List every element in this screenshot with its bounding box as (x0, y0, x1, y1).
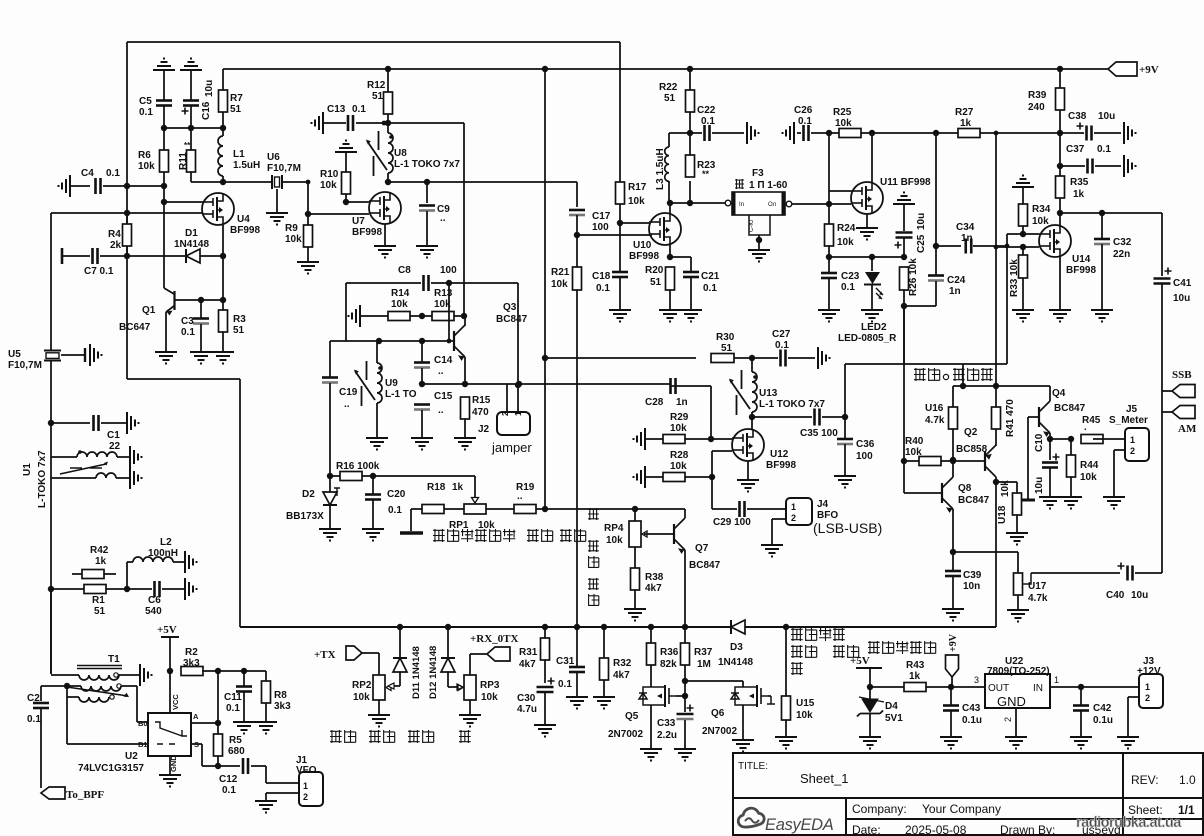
transformer T1 core (77, 665, 122, 667)
ground above C5 (153, 59, 175, 71)
svg-text:.: . (1084, 422, 1087, 433)
svg-text:10u: 10u (1098, 111, 1115, 122)
potentiometer RP2 (373, 675, 385, 700)
+9V flag vertical (946, 655, 959, 677)
svg-text:C31: C31 (556, 656, 575, 667)
node U8 bottom (385, 179, 391, 185)
inductor U13 with core arrow (751, 358, 753, 372)
capacitor C31 (576, 627, 578, 666)
svg-text:+12V: +12V (1137, 666, 1161, 677)
svg-text:RP1: RP1 (449, 520, 469, 531)
svg-text:U10: U10 (633, 240, 652, 251)
svg-text:D4: D4 (885, 701, 898, 712)
capacitor C27 (752, 357, 778, 359)
capacitor C17 (569, 209, 585, 212)
svg-text:C25: C25 (916, 234, 927, 253)
svg-text:22: 22 (109, 441, 121, 452)
wire R30 row (545, 357, 696, 359)
svg-text:+5V: +5V (157, 624, 177, 636)
resistor R21 (573, 267, 582, 290)
wire gate2 jog (711, 451, 713, 477)
svg-text:B0: B0 (138, 719, 148, 728)
wire RP4 row (545, 508, 685, 510)
inductor U9 with core arrow (376, 341, 378, 363)
svg-text:Sheet_1: Sheet_1 (800, 771, 848, 786)
resistor R12 (384, 92, 393, 114)
svg-text:BF998: BF998 (629, 251, 659, 262)
resistor R45 (1081, 435, 1103, 444)
svg-text:C34: C34 (956, 222, 975, 233)
F3 ground pins (749, 215, 770, 235)
wire U11 gate2 (829, 203, 851, 205)
ground Q1 (155, 352, 177, 364)
transformer U1 secondary (51, 477, 96, 479)
ground left of R28 (634, 466, 646, 488)
svg-text:2k: 2k (110, 240, 122, 251)
resistor R41 (992, 407, 1001, 429)
svg-text:1: 1 (1130, 435, 1135, 445)
svg-text:jamper: jamper (491, 440, 532, 455)
wire left vertical x127 (126, 42, 128, 379)
svg-text:1k: 1k (95, 556, 107, 567)
svg-text:+TX: +TX (314, 649, 336, 661)
ground R8 (255, 722, 277, 734)
IC U2 74LVC1G3157 (148, 713, 191, 756)
svg-text:Q4: Q4 (1052, 388, 1066, 399)
svg-text:RP4: RP4 (604, 523, 624, 534)
wire rail1 drop to R17 (619, 42, 621, 182)
resistor R25 (839, 129, 861, 138)
svg-text:C22: C22 (697, 105, 716, 116)
ground J5 (1103, 497, 1125, 509)
ground right of C38 (1124, 122, 1136, 144)
svg-text:10k: 10k (138, 161, 155, 172)
svg-text:C4: C4 (81, 168, 94, 179)
svg-text:C1: C1 (107, 430, 120, 441)
svg-text:1k: 1k (452, 482, 464, 493)
svg-text:10k: 10k (835, 118, 852, 129)
resistor R42 (82, 570, 104, 579)
wire U17 to C40 (1031, 572, 1120, 574)
capacitor C39 (952, 552, 954, 570)
svg-text:1k: 1k (960, 118, 972, 129)
transistor Q6 2N7002 (742, 681, 744, 687)
svg-text:L-1 TO: L-1 TO (385, 389, 417, 400)
svg-text:C38: C38 (1068, 111, 1087, 122)
svg-text:C2: C2 (27, 693, 40, 704)
svg-text:R1: R1 (92, 595, 105, 606)
svg-text:10k: 10k (670, 423, 687, 434)
svg-text:1n: 1n (949, 286, 961, 297)
wire y182 to U6 (191, 181, 272, 183)
svg-text:T1: T1 (108, 654, 120, 665)
capacitor C33 polarized (677, 713, 694, 716)
capacitor C5 (156, 99, 172, 102)
capacitor C40 polarized (1126, 566, 1129, 581)
ground left of R29 (634, 428, 646, 450)
svg-text:R16 100k: R16 100k (336, 461, 380, 472)
wire U4 source down (222, 225, 224, 256)
connector J5 S_Meter (1125, 428, 1149, 461)
resistor R7 (219, 90, 228, 112)
svg-text:0.1: 0.1 (27, 714, 41, 725)
diode D11 1N4148 (399, 627, 401, 658)
svg-text:0.1: 0.1 (222, 785, 236, 796)
ground U14 (1049, 310, 1071, 322)
wire R37 to C33 (684, 681, 686, 712)
wire to R45 (1050, 438, 1071, 440)
wire U14 gate2 (996, 246, 1039, 248)
wire U12 drain (751, 417, 753, 429)
svg-text:R38: R38 (645, 572, 664, 583)
svg-text:R26 10k: R26 10k (908, 258, 919, 296)
ground C11 (233, 722, 255, 734)
wire y379 boundary (127, 378, 240, 380)
svg-text:R2: R2 (185, 647, 198, 658)
transistor U10 BF998 (649, 213, 681, 245)
svg-text:10k: 10k (1080, 472, 1097, 483)
wire C16 to junction (190, 106, 192, 128)
svg-text:+9V: +9V (948, 633, 959, 652)
capacitor C2 (40, 686, 42, 701)
wire U5 right (61, 354, 85, 356)
capacitor C20 (372, 476, 374, 494)
wire C8 right (431, 282, 518, 284)
wire x51 down to U5 (50, 213, 52, 350)
svg-text:1k: 1k (909, 671, 921, 682)
svg-text:4k7: 4k7 (613, 670, 630, 681)
svg-text:1: 1 (1145, 682, 1150, 692)
svg-text:0.1: 0.1 (388, 505, 402, 516)
svg-text:10k: 10k (905, 447, 922, 458)
resistor R19 (514, 505, 536, 514)
svg-text:Q2: Q2 (964, 427, 978, 438)
svg-text:10u: 10u (204, 80, 215, 97)
svg-text:C17: C17 (592, 211, 611, 222)
svg-text:S_Meter: S_Meter (1109, 415, 1148, 426)
ground right of U1 primary (130, 446, 142, 468)
zener diode D4 5V1 (862, 699, 878, 712)
wire C2 to To_BPF (40, 708, 42, 788)
ground bar under R18 (400, 531, 423, 535)
wire to Q6 drain (685, 680, 743, 682)
svg-text:LED-0805_R: LED-0805_R (838, 333, 897, 344)
U1 adjustable core arrow (60, 464, 106, 474)
svg-text:51: 51 (230, 104, 242, 115)
svg-text:U11 BF998: U11 BF998 (880, 177, 931, 188)
wire y364 to U14 area (845, 363, 1007, 365)
resistor R6 (160, 150, 169, 172)
capacitor C6 (153, 581, 156, 597)
svg-text:0.1: 0.1 (558, 679, 572, 690)
ground LED2 (861, 310, 883, 322)
svg-text:C20: C20 (387, 489, 406, 500)
svg-text:U8: U8 (394, 148, 407, 159)
svg-text:GND: GND (997, 694, 1026, 709)
wire to R21 (576, 235, 578, 267)
svg-text:C6: C6 (148, 595, 161, 606)
svg-text:U18: U18 (997, 505, 1008, 524)
inductor U8 with core arrow (388, 133, 393, 173)
ground U11 (856, 228, 878, 240)
svg-text:R22: R22 (659, 82, 678, 93)
wire x1162 down segment (1161, 420, 1163, 573)
svg-text:0.1: 0.1 (841, 282, 855, 293)
svg-text:Q5: Q5 (625, 711, 639, 722)
ground stub left C26 (783, 122, 795, 144)
svg-text:7809(TO-252): 7809(TO-252) (987, 666, 1050, 677)
svg-text:Q7: Q7 (695, 543, 709, 554)
svg-text:10k: 10k (320, 180, 337, 191)
svg-text:2: 2 (1003, 717, 1013, 722)
ground C20 (362, 529, 384, 541)
svg-text:L-1 TOKO 7x7: L-1 TOKO 7x7 (759, 399, 825, 410)
ground J3 (1117, 737, 1139, 749)
svg-text:..: .. (517, 491, 523, 502)
svg-text:EasyEDA: EasyEDA (765, 816, 834, 834)
svg-text:R29: R29 (670, 412, 689, 423)
wire Q3 emitter (464, 357, 466, 384)
wire gate1 drop U4 (163, 186, 165, 202)
svg-text:D11 1N4148: D11 1N4148 (411, 646, 422, 699)
wire C8 to base row (448, 283, 450, 341)
ground right of C1 (127, 412, 139, 434)
svg-text:BB173X: BB173X (286, 511, 324, 522)
resistor R37 (684, 627, 686, 643)
wire Q1 collector row (174, 299, 223, 301)
resistor R24 (828, 204, 830, 224)
ground R20 (659, 310, 681, 322)
connector J3 +12V (1139, 674, 1163, 708)
svg-text:C-Ю: C-Ю (749, 220, 755, 232)
ground D4 (859, 737, 881, 749)
svg-text:0.1: 0.1 (1097, 144, 1111, 155)
wire R10 to U7 gate1 (346, 201, 369, 203)
wire U11 drain (871, 133, 873, 182)
svg-text:240: 240 (1028, 102, 1045, 113)
wire x240 left boundary vertical (239, 379, 241, 627)
wire U22 pin2 (1015, 708, 1017, 737)
svg-text:F3: F3 (752, 168, 764, 179)
svg-text:0.1: 0.1 (596, 283, 610, 294)
ground U7 (374, 246, 396, 258)
svg-text:0.1: 0.1 (352, 104, 366, 115)
resistor R9 (304, 225, 313, 247)
svg-text:L-TOKO 7x7: L-TOKO 7x7 (37, 450, 48, 508)
resistor R36 (650, 627, 652, 643)
wire rail1 top (127, 41, 620, 43)
wire R26 bottom to x936 (904, 305, 936, 307)
svg-text:2.2u: 2.2u (657, 730, 677, 741)
resistor R18 (422, 505, 444, 514)
capacitor C37 (1059, 133, 1061, 166)
svg-text:C19: C19 (339, 387, 358, 398)
ground C23 (818, 310, 840, 322)
AM flag (1162, 411, 1172, 413)
svg-text:10u: 10u (916, 213, 927, 230)
wire J4 pin2 (772, 518, 786, 520)
svg-text:U9: U9 (385, 378, 398, 389)
wire y257 row (829, 256, 904, 258)
+RX_0TX flag (487, 647, 510, 661)
wire U22 IN to J3 (1050, 686, 1139, 688)
wire U10 drain (669, 203, 671, 213)
capacitor C26 (797, 132, 801, 134)
svg-text:C35 100: C35 100 (800, 428, 838, 439)
ground R32 (593, 697, 615, 709)
ground right of C27 (818, 347, 830, 369)
wire U14 gate1 (1023, 233, 1039, 235)
inductor L1 (218, 136, 223, 176)
svg-text:U1: U1 (22, 463, 33, 476)
svg-text:To_BPF: To_BPF (66, 789, 104, 801)
wire R2 to A pin (217, 671, 219, 723)
svg-text:1.5uH: 1.5uH (233, 160, 260, 171)
svg-text:R3: R3 (233, 314, 246, 325)
svg-text:R33 10k: R33 10k (1009, 259, 1020, 297)
wire U6 case gnd (276, 189, 278, 213)
svg-text:10k: 10k (796, 710, 813, 721)
capacitor C13 (347, 115, 350, 131)
ground bar under Q4 base (1022, 499, 1035, 502)
CJK annotation above U16 (914, 368, 926, 381)
SSB flag (1162, 390, 1172, 392)
ground above R10 (335, 141, 357, 153)
capacitor C32 (1101, 213, 1103, 238)
To_BPF flag (41, 787, 65, 799)
svg-text:2: 2 (501, 411, 510, 416)
svg-text:OUT: OUT (988, 683, 1009, 694)
svg-text:51: 51 (94, 606, 106, 617)
resistor R5 (214, 734, 223, 756)
wire C4 left (70, 185, 90, 187)
transistor Q1 BC847 (164, 288, 174, 294)
svg-text:3k3: 3k3 (183, 658, 200, 669)
svg-text:J5: J5 (1126, 404, 1138, 415)
svg-text:D12 1N4148: D12 1N4148 (428, 646, 439, 699)
wire x51 down (50, 361, 52, 674)
svg-text:A: A (193, 712, 199, 721)
svg-text:10k: 10k (285, 234, 302, 245)
svg-text:L2: L2 (160, 537, 172, 548)
wire U7 source (384, 224, 386, 246)
svg-text:J4: J4 (817, 499, 829, 510)
transistor Q2 BC858 (985, 445, 996, 477)
svg-text:540: 540 (145, 606, 162, 617)
svg-text:10k: 10k (1032, 216, 1049, 227)
ground F3 (748, 250, 770, 262)
ground above R34 (1012, 176, 1034, 188)
svg-text:1k: 1k (1073, 189, 1085, 200)
resistor U15 pulldown (785, 627, 787, 696)
wire U10 source (669, 245, 671, 257)
svg-text:4.7k: 4.7k (925, 415, 945, 426)
wire Q1 emitter down (165, 312, 167, 352)
svg-text:51: 51 (721, 343, 733, 354)
connector J1 VFO (299, 772, 323, 806)
svg-text:SSB: SSB (1172, 369, 1192, 381)
svg-text:R28: R28 (670, 450, 689, 461)
svg-text:0.1u: 0.1u (1093, 715, 1113, 726)
svg-text:0.1: 0.1 (775, 340, 789, 351)
svg-text:R13: R13 (434, 288, 453, 299)
svg-text:1: 1 (791, 502, 796, 512)
svg-text:1n: 1n (676, 397, 688, 408)
wire Q4 base down (1027, 417, 1029, 499)
ground right of U1 secondary (130, 467, 142, 489)
ground C3 (190, 352, 212, 364)
svg-text:C27: C27 (772, 329, 791, 340)
ground D2 (319, 529, 341, 541)
LED2 LED-0805_R (871, 257, 873, 271)
CJK annotation near +5V (868, 641, 880, 654)
wire C8 left (346, 282, 421, 284)
ground C21 (680, 310, 702, 322)
wire Q2 collector to Q8 node (952, 461, 954, 477)
svg-text:C16: C16 (201, 101, 212, 120)
resistor R22 (686, 90, 695, 112)
svg-text:10k: 10k (478, 520, 495, 531)
wire x904 to R40 (903, 364, 905, 461)
wire drain to C35 (752, 416, 812, 418)
svg-text:0.1: 0.1 (181, 327, 195, 338)
ground C18 (609, 310, 631, 322)
svg-text:1: 1 (303, 781, 308, 791)
wire w2 to B0 (136, 686, 138, 722)
wire U6 to R9 (282, 181, 308, 183)
wire Q6 gate stub (768, 695, 771, 697)
wire RP4 to R38 (634, 547, 636, 568)
wire to R8 (265, 671, 267, 681)
capacitor C43 (950, 687, 952, 705)
diode D12 1N4148 (447, 627, 449, 658)
capacitor C42 (1080, 687, 1082, 705)
ground C31 (566, 697, 588, 709)
CJK bottom annotation row (330, 730, 342, 743)
svg-text:C12: C12 (219, 774, 238, 785)
terminal C7 left (61, 248, 64, 264)
ground above C25 (893, 193, 915, 205)
svg-text:C10: C10 (1034, 433, 1045, 452)
CJK vertical annotation (588, 508, 599, 520)
svg-text:RP2: RP2 (352, 680, 372, 691)
svg-text:RP3: RP3 (480, 680, 500, 691)
svg-text:R18: R18 (427, 482, 446, 493)
svg-text:Q3: Q3 (503, 302, 517, 313)
svg-text:10n: 10n (963, 581, 980, 592)
node T1 w2 left (64, 683, 70, 689)
svg-text:AM: AM (1178, 423, 1197, 435)
svg-text:100: 100 (440, 265, 457, 276)
capacitor C30 polarized (537, 686, 554, 689)
resistor U17 trimmer (1014, 573, 1023, 595)
svg-text:**: ** (702, 169, 710, 179)
resistor R35 (1056, 176, 1065, 198)
capacitor C36 (844, 417, 846, 438)
svg-text:470: 470 (472, 407, 489, 418)
svg-text:B1: B1 (138, 740, 148, 749)
transistor Q5 2N7002 (639, 685, 676, 707)
svg-text:D3: D3 (730, 642, 743, 653)
ground right of L2 (185, 551, 197, 573)
svg-text:F10,7M: F10,7M (8, 360, 42, 371)
wire R25 to U11 gates (828, 133, 830, 204)
svg-text:+RX_0TX: +RX_0TX (470, 633, 518, 645)
svg-text:1: 1 (1054, 675, 1059, 685)
svg-text:R10: R10 (320, 169, 339, 180)
svg-text:..: .. (438, 405, 444, 416)
transformer T1 winding3 (67, 696, 79, 698)
